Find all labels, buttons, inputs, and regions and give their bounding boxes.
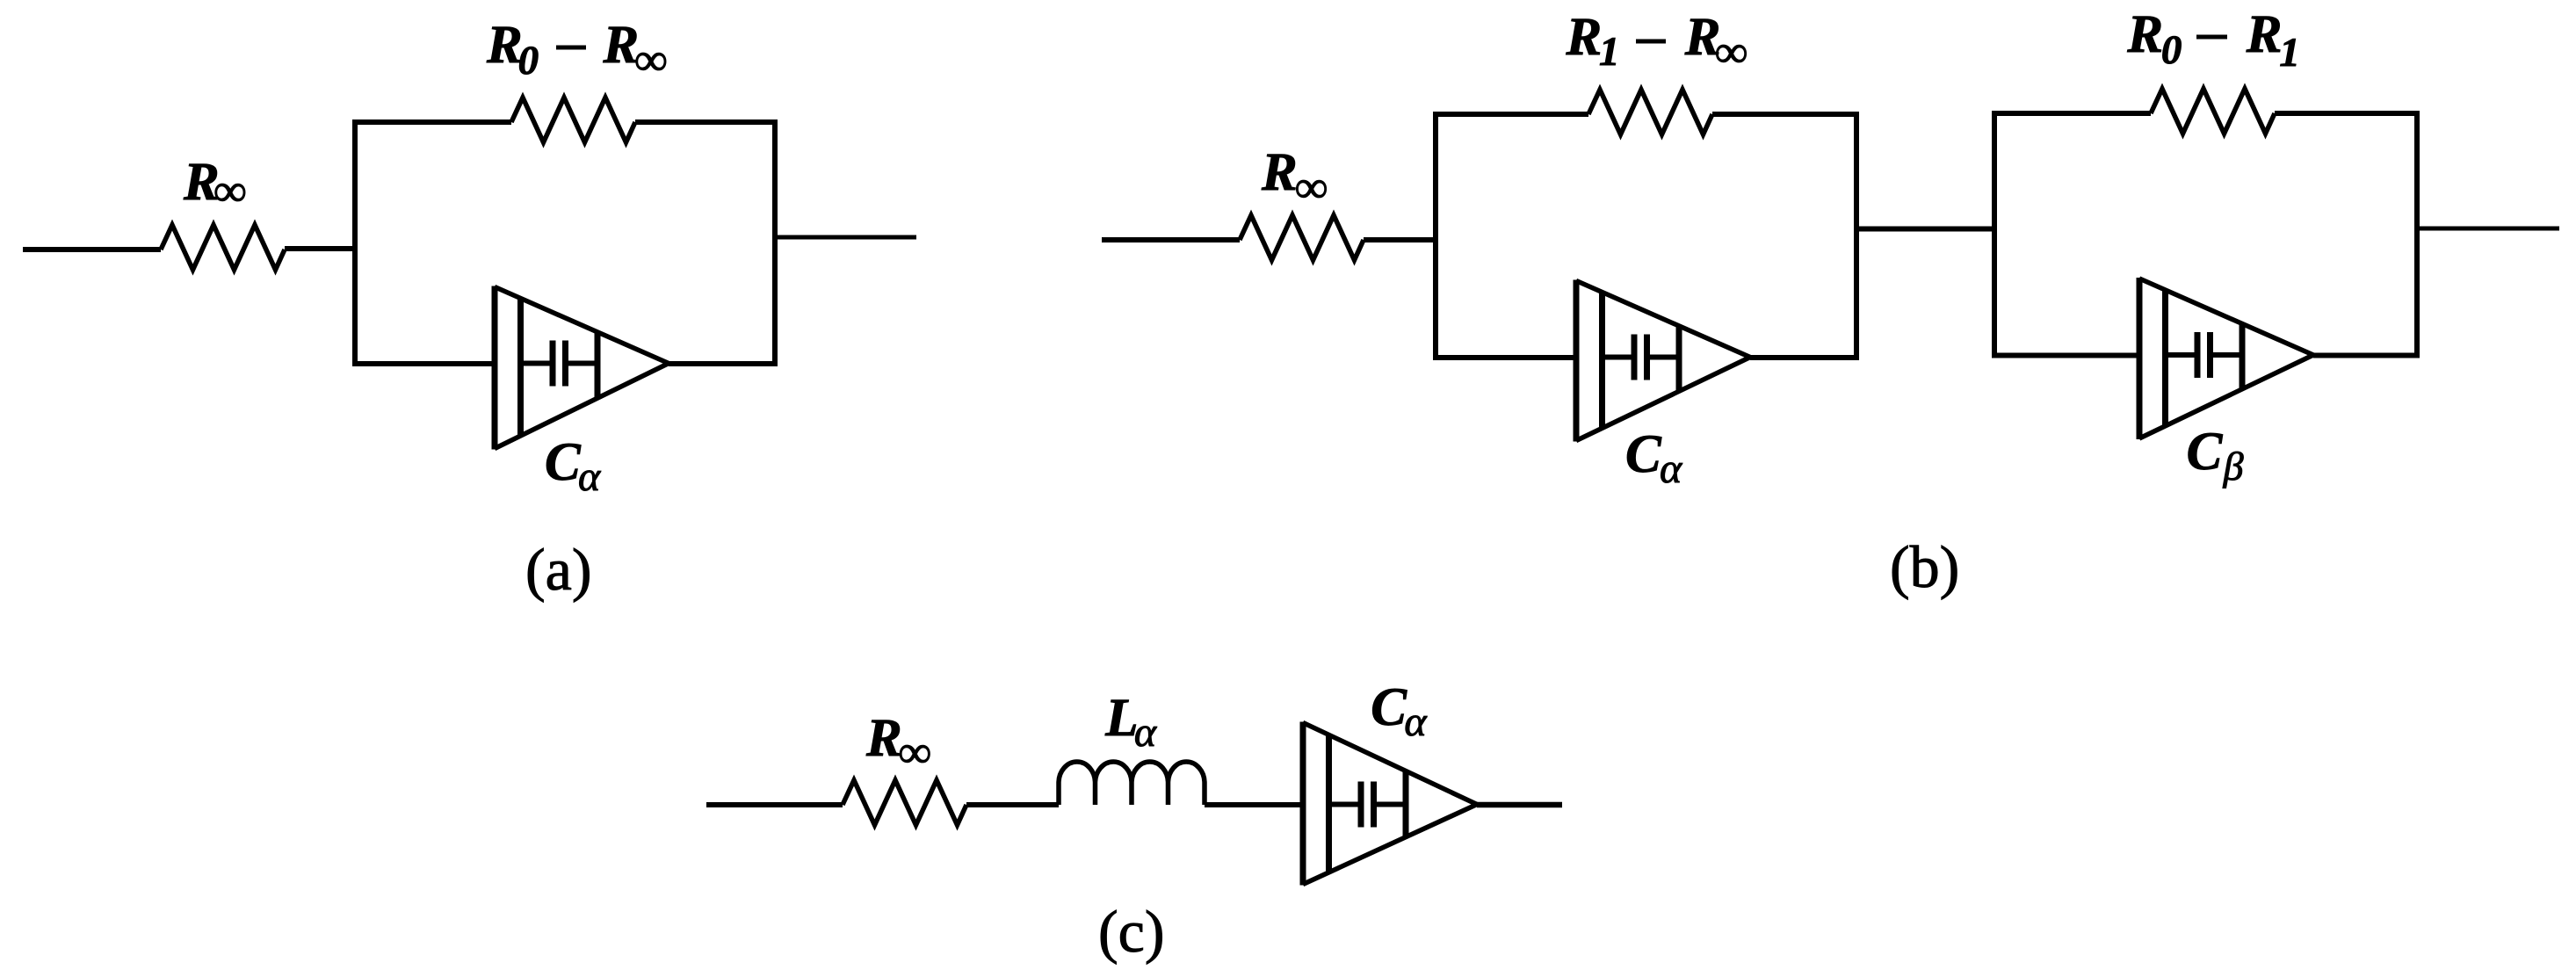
label R-infinity (b) [1261, 143, 1328, 213]
label L-alpha (c) [1104, 689, 1157, 756]
svg-text:(c): (c) [1098, 898, 1164, 965]
label R1 minus R-infinity (b) [1566, 8, 1748, 77]
svg-text:R: R [603, 16, 640, 75]
wire top left box1 (b) [1433, 112, 1588, 117]
wire bottom left box2 (b) [1992, 353, 2139, 358]
wire right branch vertical (a) [772, 119, 778, 366]
svg-text:0: 0 [2161, 27, 2182, 73]
resistor R-infinity (b) [1240, 215, 1364, 260]
svg-text:R: R [2126, 5, 2163, 64]
svg-text:∞: ∞ [634, 35, 667, 85]
svg-text:(b): (b) [1890, 533, 1959, 600]
wire top right (a) [635, 119, 778, 125]
wire resistor to node (b) [1364, 237, 1438, 242]
wire inductor to CPE (c) [1205, 802, 1303, 807]
wire bottom right (a) [669, 361, 778, 366]
wire top right box1 (b) [1712, 112, 1859, 117]
label R-infinity (a) [183, 153, 246, 216]
svg-text:R: R [2246, 5, 2283, 64]
svg-text:C: C [2187, 423, 2224, 481]
svg-text:∞: ∞ [213, 166, 246, 216]
resistor R-infinity (a) [161, 225, 285, 270]
svg-text:(a): (a) [525, 536, 591, 603]
svg-text:R: R [1261, 143, 1298, 202]
wire output (a) [775, 235, 916, 240]
wire input (a) [23, 247, 161, 252]
svg-text:β: β [2223, 444, 2244, 488]
svg-text:R: R [486, 16, 523, 75]
label C-beta (b) [2187, 423, 2244, 488]
resistor R0 minus R1 (b) [2151, 89, 2275, 134]
svg-text:α: α [1404, 698, 1427, 745]
label C-alpha (a) [545, 433, 601, 500]
wire output (b) [2417, 227, 2559, 231]
label R-infinity (c) [865, 709, 931, 778]
svg-text:R: R [865, 709, 902, 768]
svg-text:C: C [545, 433, 582, 492]
svg-text:L: L [1104, 689, 1138, 748]
label C-alpha (b) [1625, 425, 1682, 492]
svg-text:C: C [1371, 678, 1407, 737]
svg-text:α: α [1660, 445, 1682, 492]
CPE C-alpha (b) [1576, 280, 1750, 442]
svg-text:α: α [1134, 709, 1157, 756]
wire right branch vertical box2 (b) [2414, 111, 2420, 358]
wire output (c) [1477, 802, 1562, 808]
wire top left (a) [352, 119, 511, 125]
wire left branch vertical box2 (b) [1992, 111, 1997, 358]
label C-alpha (c) [1371, 678, 1427, 745]
CPE C-alpha (a) [495, 286, 669, 450]
wire left branch vertical (a) [352, 119, 358, 366]
wire top left box2 (b) [1992, 111, 2151, 116]
svg-text:∞: ∞ [1715, 27, 1747, 77]
svg-text:R: R [1566, 8, 1603, 67]
wire bottom right box1 (b) [1750, 355, 1859, 360]
wire input (c) [706, 802, 843, 807]
resistor R-infinity (c) [843, 780, 966, 825]
svg-text:∞: ∞ [899, 727, 931, 778]
wire bottom left (a) [352, 361, 495, 366]
wire resistor to inductor (c) [966, 802, 1059, 807]
svg-text:1: 1 [2279, 30, 2300, 76]
resistor R1 minus R-infinity (b) [1588, 90, 1712, 134]
wire input (b) [1102, 237, 1240, 242]
wire top right box2 (b) [2275, 111, 2420, 116]
svg-text:0: 0 [518, 38, 539, 83]
wire left branch vertical box1 (b) [1433, 112, 1438, 360]
resistor R0 minus R-infinity (a) [511, 98, 635, 142]
CPE C-alpha (c) [1303, 722, 1477, 886]
label R0 minus R1 (b) [2126, 5, 2300, 76]
label R0 minus R-infinity (a) [486, 16, 667, 85]
svg-text:α: α [578, 453, 601, 500]
CPE C-beta (b) [2139, 278, 2313, 439]
wire between boxes (b) [1856, 227, 1994, 232]
svg-text:∞: ∞ [1295, 163, 1328, 213]
wire resistor to node (a) [285, 246, 355, 251]
wire bottom left box1 (b) [1433, 355, 1576, 360]
svg-text:1: 1 [1599, 29, 1620, 75]
inductor L-alpha (c) [1059, 762, 1205, 805]
wire bottom right box2 (b) [2313, 353, 2420, 358]
wire right branch vertical box1 (b) [1854, 112, 1859, 360]
svg-text:C: C [1625, 425, 1662, 484]
